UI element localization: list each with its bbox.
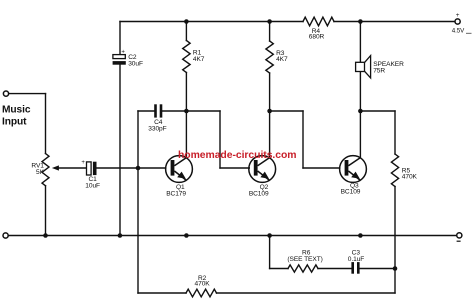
svg-text:470K: 470K bbox=[402, 174, 418, 181]
svg-text:0.1uF: 0.1uF bbox=[348, 256, 365, 263]
svg-text:+: + bbox=[121, 50, 125, 56]
svg-text:470K: 470K bbox=[195, 280, 211, 287]
svg-text:330pF: 330pF bbox=[148, 125, 166, 132]
svg-text:30uF: 30uF bbox=[128, 60, 143, 67]
svg-text:4K7: 4K7 bbox=[193, 56, 205, 63]
svg-text:Music: Music bbox=[2, 104, 31, 115]
svg-text:75R: 75R bbox=[373, 67, 385, 74]
svg-text:Input: Input bbox=[2, 116, 27, 127]
svg-text:10uF: 10uF bbox=[85, 182, 100, 189]
svg-text:+: + bbox=[456, 12, 460, 19]
svg-text:680R: 680R bbox=[309, 33, 325, 40]
svg-text:4.5V: 4.5V bbox=[452, 28, 465, 35]
svg-text:5K: 5K bbox=[36, 169, 45, 176]
svg-text:BC109: BC109 bbox=[341, 189, 361, 196]
svg-text:BC179: BC179 bbox=[166, 190, 186, 197]
svg-text:(SEE TEXT): (SEE TEXT) bbox=[287, 256, 322, 263]
svg-text:+: + bbox=[81, 160, 85, 166]
svg-text:homemade-circuits.com: homemade-circuits.com bbox=[178, 150, 296, 161]
svg-text:BC109: BC109 bbox=[249, 190, 269, 197]
svg-text:4K7: 4K7 bbox=[276, 56, 288, 63]
